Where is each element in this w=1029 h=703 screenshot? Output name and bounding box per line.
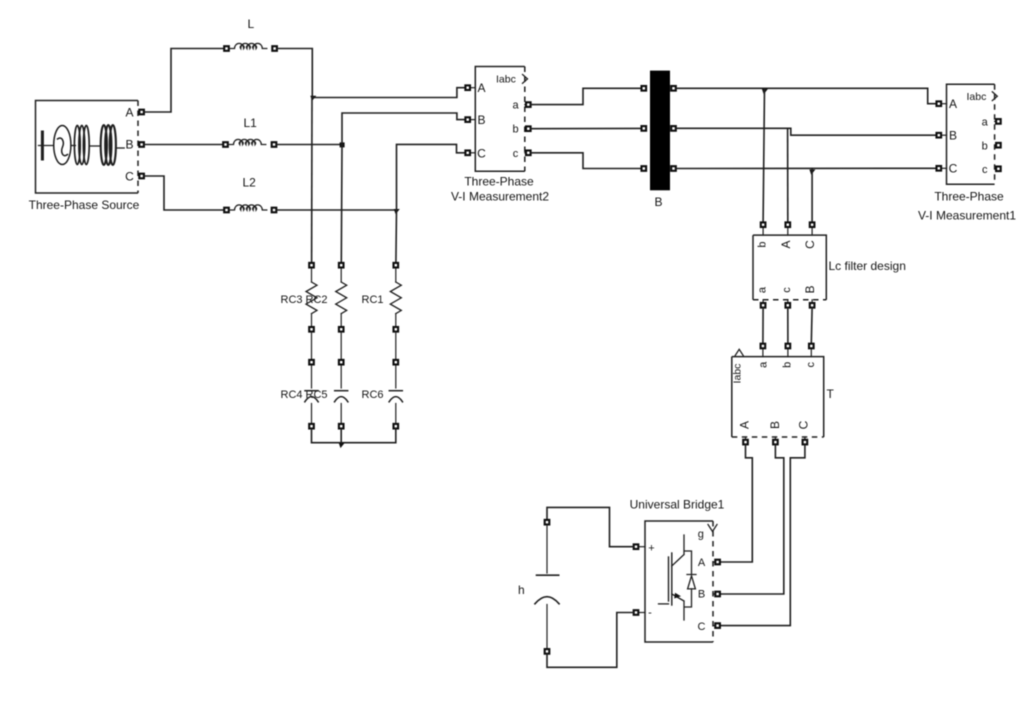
svg-text:a: a <box>757 286 769 293</box>
wire: branch down to Lc filter A <box>787 128 789 222</box>
wire: branch down to Lc filter b <box>763 88 764 222</box>
wire: T C to bridge output C <box>721 445 805 626</box>
svg-text:B: B <box>768 421 782 429</box>
wire: B mid phase to measurement1 B <box>677 128 937 135</box>
svg-text:Lc filter design: Lc filter design <box>829 259 906 273</box>
svg-text:B: B <box>949 129 957 143</box>
svg-text:RC6: RC6 <box>362 389 384 401</box>
svg-text:A: A <box>738 421 752 429</box>
svg-text:A: A <box>949 97 957 111</box>
wire: measurement2 c to block B <box>531 153 641 169</box>
junction: node to Lc b <box>762 89 768 94</box>
svg-text:c: c <box>982 164 988 176</box>
wire: L output to column node <box>278 49 313 98</box>
svg-text:B: B <box>477 113 485 127</box>
svg-text:C: C <box>477 146 486 160</box>
block: T (three-phase V-I measurement rotated) <box>732 344 824 445</box>
wire: measurement2 a to block B <box>531 88 641 104</box>
label: Three-Phase V-I Measurement2 <box>451 174 549 203</box>
svg-text:B: B <box>803 285 817 293</box>
wire: B top phase to measurement1 A <box>677 88 937 103</box>
svg-text:Iabc: Iabc <box>732 364 744 384</box>
svg-text:-: - <box>648 607 652 619</box>
resistor RC1 <box>390 263 401 332</box>
capacitor h <box>535 520 559 654</box>
svg-text:b: b <box>781 362 793 368</box>
wire: bottom bus <box>312 429 396 443</box>
svg-text:A: A <box>698 557 706 569</box>
svg-text:C: C <box>125 170 134 184</box>
svg-text:B: B <box>698 589 705 601</box>
svg-text:RC1: RC1 <box>362 294 384 306</box>
svg-text:a: a <box>757 361 769 368</box>
wire: capacitor h top to bridge plus <box>547 507 633 546</box>
svg-text:RC3: RC3 <box>281 294 303 306</box>
wire: RC3 to RC4 <box>311 332 313 360</box>
svg-text:L: L <box>248 17 255 31</box>
block: Universal Bridge1 <box>634 521 720 642</box>
wire: RC1 to RC6 <box>395 332 397 360</box>
svg-text:C: C <box>797 420 811 429</box>
junction: node to Lc C <box>809 170 815 175</box>
svg-text:Iabc: Iabc <box>967 91 987 103</box>
wire: T B to bridge output B <box>721 445 784 594</box>
block: Lc filter design <box>753 222 826 307</box>
wire: Lc B to T c <box>810 308 813 344</box>
wire: RC2 to RC5 <box>340 332 342 360</box>
block: Three-Phase Source <box>36 101 144 194</box>
svg-text:c: c <box>781 287 793 293</box>
svg-text:A: A <box>477 81 485 95</box>
wire: L2 output to column3 node <box>277 209 397 211</box>
resistor RC2 <box>336 263 347 332</box>
junction: node col3 <box>394 209 400 214</box>
svg-text:+: + <box>648 543 654 555</box>
svg-text:C: C <box>803 240 817 249</box>
wire: Lc a to T a <box>762 308 764 344</box>
svg-text:Universal Bridge1: Universal Bridge1 <box>630 498 725 512</box>
capacitor RC6 <box>389 360 402 429</box>
junction: bus center <box>339 443 345 448</box>
block: Three-Phase V-I Measurement2 <box>465 67 530 172</box>
wire: column3 up and to measurement2 C <box>397 144 466 210</box>
capacitor RC4 <box>305 360 318 429</box>
wire: column2 down to RC2 <box>340 145 343 264</box>
svg-text:Three-Phase Source: Three-Phase Source <box>29 198 140 212</box>
wire: source B to inductor L1 <box>145 144 223 146</box>
svg-text:b: b <box>982 140 988 152</box>
svg-text:A: A <box>125 106 133 120</box>
wire: source A to inductor L <box>145 49 224 113</box>
svg-text:B: B <box>654 195 662 209</box>
wire: measurement2 b to block B <box>531 127 641 129</box>
svg-text:RC4: RC4 <box>281 389 303 401</box>
svg-text:RC2: RC2 <box>306 294 328 306</box>
svg-text:L1: L1 <box>244 116 258 130</box>
svg-text:c: c <box>513 148 519 160</box>
svg-text:Three-Phase: Three-Phase <box>464 174 534 188</box>
wire: column1 down to RC3 <box>311 98 313 264</box>
svg-text:A: A <box>779 240 793 248</box>
wire: Lc c to T b <box>787 308 789 344</box>
svg-text:V-I Measurement1: V-I Measurement1 <box>918 208 1016 222</box>
wire: branch down to Lc filter C <box>811 169 813 223</box>
svg-text:b: b <box>512 124 518 136</box>
wire: source C to inductor L2 <box>145 176 224 210</box>
wire: RC5 stub to bus <box>340 429 342 443</box>
resistor RC3 <box>306 263 317 332</box>
block: Three-Phase V-I Measurement1 <box>937 84 1001 184</box>
svg-text:a: a <box>512 100 519 112</box>
capacitor RC5 <box>335 360 348 429</box>
wire: column3 down to RC1 <box>395 210 398 263</box>
transistor: IGBT with diode inside bridge <box>659 535 697 620</box>
svg-text:L2: L2 <box>243 176 257 190</box>
svg-text:h: h <box>518 583 525 597</box>
block: B (three-phase transformer) <box>642 71 676 191</box>
label: Three-Phase V-I Measurement1 <box>918 190 1016 223</box>
wire: L1 output to column2 node <box>277 144 342 146</box>
inductor L <box>224 43 277 50</box>
svg-text:c: c <box>805 362 817 368</box>
wire: B bottom phase to measurement1 C <box>677 167 937 169</box>
svg-text:T: T <box>827 387 835 401</box>
junction: node col1 top <box>310 96 316 101</box>
svg-text:Iabc: Iabc <box>496 74 516 86</box>
wire: node to measurement2 A <box>312 88 465 98</box>
svg-text:b: b <box>757 241 769 247</box>
svg-text:C: C <box>698 621 706 633</box>
inductor L1 <box>223 139 276 146</box>
inductor L2 <box>224 205 276 212</box>
svg-text:Three-Phase: Three-Phase <box>934 190 1004 204</box>
junction: node col2 <box>340 142 345 147</box>
svg-text:C: C <box>949 162 958 176</box>
svg-text:B: B <box>125 138 133 152</box>
wire: column2 up and to measurement2 B <box>342 113 465 145</box>
wire: capacitor h bottom to bridge minus <box>547 613 633 668</box>
svg-text:V-I Measurement2: V-I Measurement2 <box>451 189 549 203</box>
svg-text:a: a <box>982 117 989 129</box>
wire: T A to bridge output A <box>721 445 753 562</box>
svg-text:g: g <box>698 529 704 541</box>
